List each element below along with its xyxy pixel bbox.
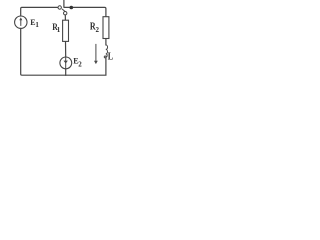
svg-text:2: 2 — [78, 61, 82, 69]
resistor R1 — [63, 20, 69, 41]
label R2 — [90, 21, 100, 34]
wire switch vertical stub — [63, 0, 65, 7]
wire R2 to inductor — [105, 39, 107, 46]
switch terminal circle left — [58, 6, 61, 9]
svg-text:2: 2 — [96, 26, 100, 34]
junction dot — [70, 6, 74, 10]
wire bottom right — [66, 58, 106, 75]
wire R1 to E2 — [65, 41, 67, 57]
svg-text:L: L — [108, 51, 113, 62]
wire left branch below E1 — [21, 28, 66, 75]
wire top-left corner to switch — [21, 7, 58, 16]
svg-text:1: 1 — [35, 21, 39, 29]
label E2 — [73, 56, 82, 68]
source E1 — [15, 16, 27, 28]
switch blade — [62, 9, 67, 13]
inductor L coil — [104, 45, 107, 58]
wire switch lower terminal to R1 — [64, 15, 66, 20]
resistor R2 — [103, 17, 109, 39]
source E2 — [60, 57, 72, 69]
label R1 — [52, 21, 61, 34]
svg-text:1: 1 — [57, 26, 61, 34]
wire E2 to bottom — [65, 69, 67, 75]
current arrow i — [94, 44, 98, 64]
switch terminal circle lower — [63, 12, 66, 15]
label E1 — [30, 18, 39, 29]
wire top-right from switch to R2 — [64, 7, 106, 16]
